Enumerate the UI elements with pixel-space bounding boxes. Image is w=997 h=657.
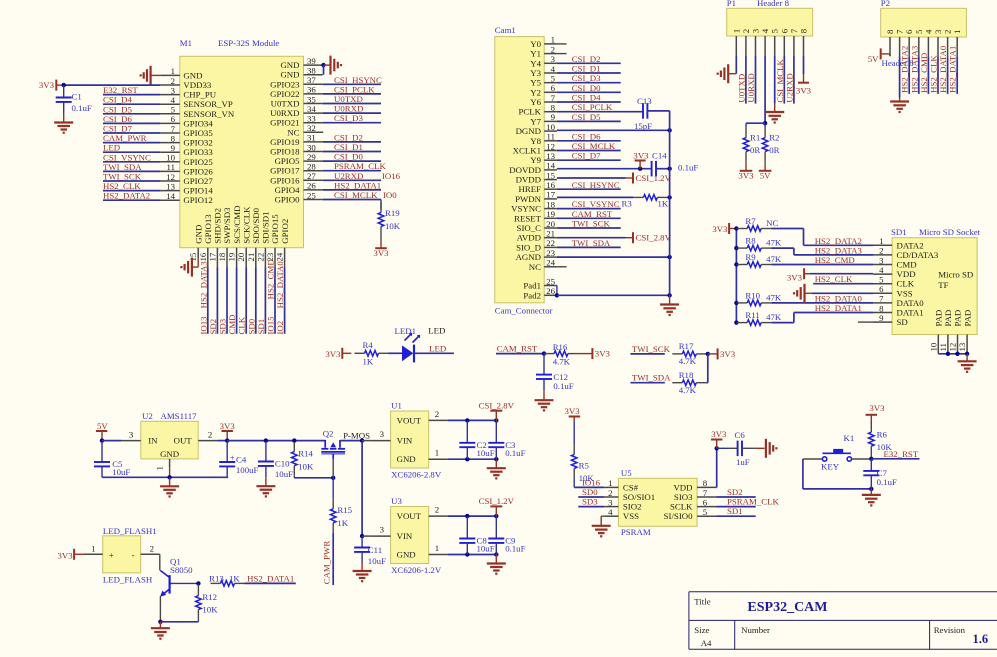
wire C8 bottom lead <box>466 543 468 555</box>
svg-text:GPIO35: GPIO35 <box>183 128 213 138</box>
svg-text:VIN: VIN <box>397 436 413 446</box>
svg-text:CSI_D7: CSI_D7 <box>103 124 132 134</box>
wire net HS2_DATA1 <box>323 189 381 191</box>
svg-text:NC: NC <box>529 262 541 272</box>
wire rail to ground <box>966 354 968 362</box>
wire DOVDD <box>557 168 652 170</box>
svg-text:1: 1 <box>952 30 962 34</box>
M1 pin 16 <box>198 214 213 267</box>
svg-text:Y7: Y7 <box>530 116 541 126</box>
wire C10 bottom lead <box>265 466 267 477</box>
wire C6 to ground <box>742 447 765 449</box>
svg-text:8: 8 <box>703 478 708 488</box>
svg-text:Q2: Q2 <box>323 429 334 439</box>
wire P1 pin8 <box>803 55 805 74</box>
svg-text:17: 17 <box>207 252 217 261</box>
C5 labels <box>112 459 130 477</box>
svg-text:7: 7 <box>789 28 799 33</box>
wire net CSI_D0 <box>557 91 621 93</box>
P1 pin 8 <box>799 28 809 55</box>
svg-text:30: 30 <box>307 142 316 152</box>
junction E32_RST <box>869 457 873 461</box>
Cam1 pin 2 <box>530 44 557 58</box>
svg-text:2: 2 <box>741 29 751 33</box>
ground U2 <box>160 477 179 496</box>
svg-text:XC6206-2.8V: XC6206-2.8V <box>391 470 442 480</box>
svg-text:VOUT: VOUT <box>397 415 422 425</box>
svg-text:U0TXD: U0TXD <box>736 74 746 103</box>
junction bus Pad2 <box>667 293 671 297</box>
svg-text:8: 8 <box>799 28 809 33</box>
wire R12 top lead <box>197 583 199 585</box>
svg-text:1: 1 <box>171 66 175 76</box>
P2 pin 6 <box>904 29 914 56</box>
wire P1 net U0TXD <box>745 55 747 103</box>
svg-text:Cam_Connector: Cam_Connector <box>495 306 553 316</box>
wire U1 gnd stem <box>495 459 497 468</box>
U5 pin 5 <box>664 507 717 521</box>
svg-text:M1: M1 <box>180 38 192 48</box>
svg-text:GPIO13: GPIO13 <box>203 214 213 244</box>
wire net PSRAM_CLK <box>323 170 381 172</box>
svg-text:8: 8 <box>885 29 895 34</box>
svg-text:AMS1117: AMS1117 <box>161 411 198 421</box>
M1 pin 10 <box>160 153 213 167</box>
wire 5V to IN <box>102 440 121 442</box>
svg-text:HS2_DATA1: HS2_DATA1 <box>948 46 958 93</box>
svg-text:Y3: Y3 <box>530 68 541 78</box>
P1 pin 3 <box>751 28 761 55</box>
svg-text:PAD: PAD <box>953 310 963 327</box>
svg-text:1: 1 <box>435 543 439 553</box>
resistor R6 <box>869 422 893 456</box>
svg-text:36: 36 <box>307 85 316 95</box>
svg-text:CSI_VSYNC: CSI_VSYNC <box>103 152 151 162</box>
svg-text:1: 1 <box>91 543 95 553</box>
Cam1 pin 26 <box>523 286 557 300</box>
transistor Q1 S8050 <box>160 557 193 597</box>
svg-text:HS2_DATA1: HS2_DATA1 <box>247 573 294 583</box>
svg-text:6: 6 <box>703 497 708 507</box>
svg-text:IO2: IO2 <box>275 321 285 335</box>
svg-text:SIO_C: SIO_C <box>517 223 542 233</box>
svg-text:26: 26 <box>307 181 316 191</box>
C9 labels <box>505 536 525 554</box>
svg-text:GND: GND <box>183 70 202 80</box>
capacitor C3 <box>488 443 504 447</box>
svg-text:IO16: IO16 <box>382 171 401 181</box>
ground M1 pin15 <box>181 258 192 277</box>
svg-text:5: 5 <box>770 28 780 33</box>
P2 pin 7 <box>895 29 905 56</box>
wire P1 pin5 <box>774 55 776 103</box>
svg-text:A4: A4 <box>701 638 712 648</box>
svg-text:13: 13 <box>957 342 967 351</box>
C14 labels <box>652 151 698 173</box>
svg-text:Size: Size <box>694 625 709 635</box>
wire C13 to bus <box>647 110 669 112</box>
svg-text:5: 5 <box>551 74 556 84</box>
Cam1 pin 25 <box>523 276 557 290</box>
svg-text:16: 16 <box>198 252 208 261</box>
svg-text:47K: 47K <box>766 292 782 302</box>
resistor R12 <box>196 586 219 620</box>
svg-text:Y5: Y5 <box>530 78 541 88</box>
wire DGND <box>557 129 670 131</box>
svg-text:Y0: Y0 <box>530 39 541 49</box>
svg-text:CSI_D0: CSI_D0 <box>334 152 363 162</box>
svg-text:10: 10 <box>546 122 555 132</box>
svg-text:R2: R2 <box>769 133 779 143</box>
capacitor C8 <box>459 539 475 543</box>
svg-text:SD3: SD3 <box>218 318 228 334</box>
svg-text:GPIO17: GPIO17 <box>270 166 300 176</box>
svg-text:10uF: 10uF <box>368 556 386 566</box>
svg-text:29: 29 <box>307 152 316 162</box>
wire 3V3 to R5 <box>573 421 575 444</box>
ground C10 <box>256 477 275 496</box>
LED_FLASH1 pin 2 <box>141 543 160 554</box>
wire SD0 <box>578 496 604 498</box>
wire bus to R11 <box>735 322 738 324</box>
wire C5 top lead <box>101 441 103 462</box>
svg-text:39: 39 <box>307 56 316 66</box>
wire Cam1 pin 2 stub <box>557 53 567 55</box>
svg-text:4.7K: 4.7K <box>679 356 697 366</box>
wire P2 net HS2_DATA0 <box>947 56 949 94</box>
svg-text:CSI_MCLK: CSI_MCLK <box>334 190 378 200</box>
M1 pin 17 <box>207 208 222 267</box>
wire VDD U5 <box>716 486 718 488</box>
junction rail gnd <box>167 475 171 479</box>
wire R2 to 5V <box>764 162 766 164</box>
wire DVDD <box>557 177 626 179</box>
M1 pin 11 <box>160 162 213 176</box>
svg-text:3: 3 <box>933 29 943 34</box>
U5 pin 7 <box>674 488 717 502</box>
svg-text:11: 11 <box>167 162 175 172</box>
C2 labels <box>477 440 495 458</box>
svg-text:Y9: Y9 <box>530 155 541 165</box>
svg-text:HS2_DATA3: HS2_DATA3 <box>909 45 919 93</box>
svg-text:CHP_PU: CHP_PU <box>183 90 216 100</box>
svg-text:PAD: PAD <box>934 310 944 327</box>
svg-text:7: 7 <box>879 294 884 304</box>
ground C1 <box>54 114 73 133</box>
junction R1 R2 <box>763 121 767 125</box>
wire net CSI_D0 <box>323 160 381 162</box>
svg-text:VOUT: VOUT <box>397 511 422 521</box>
wire HS2_DATA1 <box>794 312 873 314</box>
svg-text:SD0: SD0 <box>246 318 256 334</box>
resistor R9 <box>737 252 782 267</box>
wire P2 pin7 <box>899 56 901 98</box>
svg-text:SCLK: SCLK <box>670 502 693 512</box>
svg-text:R13: R13 <box>209 574 224 584</box>
wire VSS <box>812 292 873 294</box>
svg-text:2: 2 <box>608 488 612 498</box>
resistor R10 <box>737 290 782 305</box>
power 5V U2 <box>96 421 109 441</box>
svg-text:16: 16 <box>546 180 555 190</box>
wire bus to R10 <box>735 302 738 304</box>
svg-text:CSI_D4: CSI_D4 <box>572 93 601 103</box>
svg-text:11: 11 <box>547 132 555 142</box>
capacitor C10 <box>258 462 274 466</box>
svg-text:17: 17 <box>546 190 555 200</box>
svg-text:CSI_D5: CSI_D5 <box>103 104 132 114</box>
wire C4 bottom lead <box>226 466 228 477</box>
C7 labels <box>877 468 897 487</box>
wire P2 net HS2_DATA2 <box>908 56 910 94</box>
svg-text:CS#: CS# <box>623 482 639 492</box>
svg-text:Y8: Y8 <box>530 136 541 146</box>
svg-text:XC6206-1.2V: XC6206-1.2V <box>391 565 442 575</box>
svg-text:DATA2: DATA2 <box>897 240 924 250</box>
wire C14 to bus <box>656 168 670 170</box>
wire R11 bend <box>793 313 795 323</box>
C3 labels <box>505 440 525 458</box>
Cam1 pin 16 <box>519 180 557 194</box>
wire net CAM_RST <box>557 217 621 219</box>
U1 pin 3 <box>371 429 390 441</box>
junction bus R3 <box>667 195 671 199</box>
wire pin25 corner <box>380 200 382 210</box>
wire M1 bottom pin 22 <box>264 267 266 334</box>
svg-text:HS2_DATA2: HS2_DATA2 <box>815 236 862 246</box>
resistor R8 <box>737 236 782 251</box>
P1 pin 7 <box>789 28 799 55</box>
junction C1 <box>62 83 66 87</box>
svg-text:R4: R4 <box>363 340 374 350</box>
svg-text:DGND: DGND <box>516 126 541 136</box>
svg-text:27: 27 <box>307 171 316 181</box>
wire bus to R7 <box>735 228 738 230</box>
svg-text:GPIO19: GPIO19 <box>270 137 300 147</box>
wire R11 out <box>771 322 794 324</box>
svg-text:SIO_D: SIO_D <box>516 242 541 252</box>
svg-text:HREF: HREF <box>519 184 542 194</box>
ground SD VSS <box>794 284 805 303</box>
U2 pin 2 <box>198 430 217 441</box>
power 3V3 C14 <box>633 151 649 169</box>
svg-text:CAM_PWR: CAM_PWR <box>103 133 147 143</box>
wire C10 top lead <box>265 441 267 462</box>
wire R14 to gate node <box>294 477 333 479</box>
wire VSS U5 <box>601 516 604 526</box>
svg-text:K1: K1 <box>844 433 855 443</box>
wire C2 top lead <box>466 420 468 442</box>
svg-text:C14: C14 <box>652 151 667 161</box>
svg-text:HS2_DATA0: HS2_DATA0 <box>938 45 948 93</box>
wire R17 to junction <box>706 353 708 355</box>
svg-text:0.1uF: 0.1uF <box>553 381 573 391</box>
svg-text:TWI_SDA: TWI_SDA <box>103 162 142 172</box>
wire C9 top lead <box>495 516 497 538</box>
ground M1 top <box>331 56 342 75</box>
wire GND <box>448 554 496 556</box>
svg-text:E32_RST: E32_RST <box>884 449 919 459</box>
wire net CSI_D7 <box>103 132 160 134</box>
svg-text:IO15: IO15 <box>266 316 276 335</box>
svg-text:TWI_SCK: TWI_SCK <box>632 344 671 354</box>
wire net CSI_D6 <box>103 122 160 124</box>
wire PSRAM_CLK <box>717 506 756 508</box>
svg-text:HS2_DATA2: HS2_DATA2 <box>103 191 150 201</box>
svg-text:47K: 47K <box>766 254 782 264</box>
svg-text:VSYNC: VSYNC <box>511 204 541 214</box>
svg-text:C13: C13 <box>637 96 652 106</box>
wire SD2 <box>717 496 756 498</box>
svg-text:CSI_D1: CSI_D1 <box>334 142 363 152</box>
U5 pin 2 <box>604 488 655 502</box>
junction bus AGND <box>667 255 671 259</box>
svg-text:PSRAM: PSRAM <box>621 527 651 537</box>
svg-text:C4: C4 <box>236 454 247 464</box>
svg-text:19: 19 <box>546 209 555 219</box>
svg-text:9: 9 <box>879 313 884 323</box>
svg-text:U2RXD: U2RXD <box>334 171 363 181</box>
svg-text:PSRAM_CLK: PSRAM_CLK <box>727 497 779 507</box>
wire P1 pin1 <box>735 55 737 73</box>
Cam1 pin 1 <box>530 35 557 49</box>
wire R18 out <box>706 382 708 384</box>
junction K1 gnd <box>869 487 873 491</box>
M1 pin 25 <box>275 190 323 204</box>
connector P1 <box>727 0 813 55</box>
svg-text:CSI_VSYNC: CSI_VSYNC <box>572 199 620 209</box>
svg-text:CLK: CLK <box>897 279 915 289</box>
SD1 pin 7 <box>873 294 924 308</box>
svg-text:7: 7 <box>703 488 708 498</box>
wire VOUT <box>448 515 496 517</box>
P2 pin 8 <box>885 29 895 56</box>
svg-text:1: 1 <box>155 466 165 470</box>
svg-text:GPIO33: GPIO33 <box>183 147 213 157</box>
M1 pin 29 <box>275 152 323 166</box>
svg-text:VDD: VDD <box>673 482 692 492</box>
wire 2.8V input down <box>361 441 363 536</box>
SD1 pin 6 <box>873 284 913 298</box>
svg-text:R11: R11 <box>745 310 759 320</box>
svg-text:ESP-32S Module: ESP-32S Module <box>218 38 279 48</box>
svg-text:GPIO4: GPIO4 <box>275 185 301 195</box>
svg-text:35: 35 <box>307 94 316 104</box>
wire P1 pin4 <box>764 55 766 123</box>
resistor R1 <box>743 128 760 162</box>
SD1 pin 12 <box>948 310 963 354</box>
svg-text:CSI_D6: CSI_D6 <box>103 114 132 124</box>
wire Q2 drain out <box>340 440 362 442</box>
svg-text:DOVDD: DOVDD <box>509 165 541 175</box>
svg-text:15: 15 <box>546 170 555 180</box>
ground U3 <box>487 564 506 574</box>
svg-text:1: 1 <box>608 478 612 488</box>
wire net CSI_D3 <box>557 82 621 84</box>
Cam1 pin 5 <box>530 74 557 88</box>
Cam1 pin 7 <box>530 93 557 107</box>
svg-text:3V3: 3V3 <box>220 421 236 431</box>
svg-text:3: 3 <box>608 497 613 507</box>
wire net TWI_SCK <box>103 180 160 182</box>
svg-text:15: 15 <box>188 252 198 261</box>
svg-text:HS2_CLK: HS2_CLK <box>815 274 853 284</box>
svg-text:GPIO5: GPIO5 <box>275 156 301 166</box>
P1 pin 5 <box>770 28 780 55</box>
Cam1 pin 21 <box>517 229 557 243</box>
wire VOUT <box>448 419 496 421</box>
wire 3V3 bus <box>735 229 737 323</box>
U5 pin 6 <box>670 497 717 511</box>
svg-text:2: 2 <box>171 76 175 86</box>
wire C4 top lead <box>226 441 228 462</box>
P2 pin 1 <box>952 30 962 57</box>
junction gnd corner <box>494 552 498 556</box>
svg-text:R10: R10 <box>745 290 760 300</box>
svg-text:14: 14 <box>546 161 555 171</box>
svg-text:3: 3 <box>380 525 385 535</box>
svg-text:R3: R3 <box>622 199 633 209</box>
svg-text:10uF: 10uF <box>112 467 130 477</box>
wire K1 down <box>802 459 804 489</box>
Cam1 pin 20 <box>517 219 557 233</box>
power 3V3 R16 <box>592 348 610 359</box>
svg-text:CMD: CMD <box>227 314 237 334</box>
Cam1 pin 3 <box>530 54 557 68</box>
U5 pin 3 <box>604 497 641 511</box>
svg-text:6: 6 <box>779 28 789 33</box>
U3 pin 3 <box>371 525 390 537</box>
wire R6 to node <box>870 456 872 459</box>
M1 pin 5 <box>160 105 234 119</box>
svg-text:19: 19 <box>227 252 237 261</box>
svg-text:P1: P1 <box>727 0 736 8</box>
power 5V P2 <box>868 48 881 64</box>
ground P1 pin5 <box>765 112 784 123</box>
svg-text:3V3: 3V3 <box>565 406 581 416</box>
M1 pin 26 <box>275 181 323 195</box>
P1 pin 4 <box>760 28 770 55</box>
wire net TWI_SDA <box>557 246 621 248</box>
wire R3 to bus <box>667 196 669 198</box>
svg-text:1K: 1K <box>337 518 348 528</box>
M1 pin 3 <box>160 85 216 99</box>
svg-text:31: 31 <box>307 133 316 143</box>
Cam1 pin 17 <box>515 190 557 204</box>
Cam1 pin 12 <box>513 141 557 155</box>
svg-text:4.7K: 4.7K <box>679 385 697 395</box>
P1 pin 1 <box>731 29 741 55</box>
wire net E32_RST <box>103 94 160 96</box>
svg-text:CSI_MCLK: CSI_MCLK <box>572 141 616 151</box>
junction bus R9 <box>734 262 738 266</box>
U2 pin 3 <box>121 430 141 441</box>
M1 pin 12 <box>160 172 213 186</box>
wire net TWI_SDA <box>103 170 160 172</box>
svg-text:13: 13 <box>546 151 555 161</box>
wire TWI_SDA <box>631 382 665 384</box>
svg-text:1: 1 <box>731 29 741 33</box>
svg-text:LED: LED <box>103 143 120 153</box>
wire TWI_SCK <box>631 353 665 355</box>
svg-text:PAD: PAD <box>943 310 953 327</box>
wire net CSI_D2 <box>323 141 381 143</box>
svg-text:SCK/CLK: SCK/CLK <box>241 206 251 244</box>
svg-text:SIO2: SIO2 <box>623 502 642 512</box>
wire C8 top lead <box>466 516 468 538</box>
wire bus to ground <box>669 295 671 304</box>
wire SD pin9 <box>858 321 873 323</box>
